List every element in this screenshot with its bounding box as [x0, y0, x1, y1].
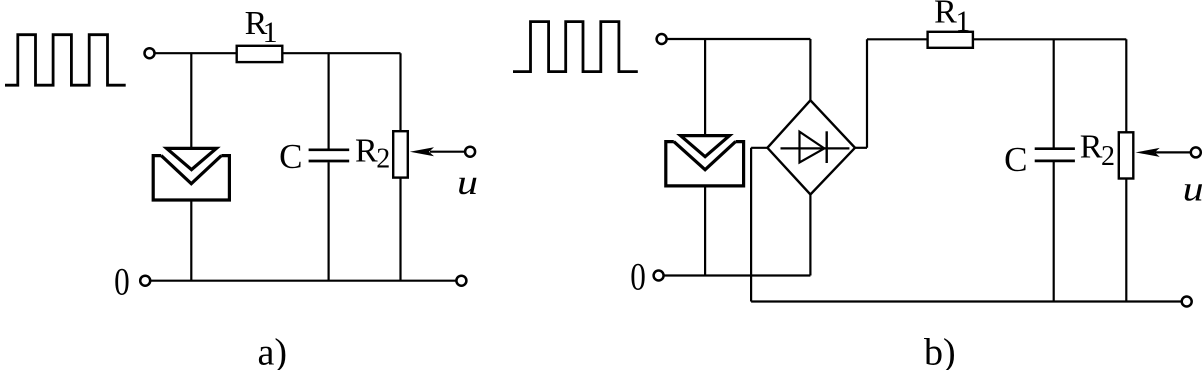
- svg-text:R: R: [355, 133, 378, 170]
- svg-text:R: R: [1080, 128, 1103, 165]
- svg-text:2: 2: [1101, 141, 1115, 172]
- svg-text:C: C: [279, 137, 302, 176]
- svg-text:1: 1: [955, 5, 970, 38]
- svg-text:u: u: [1183, 170, 1203, 208]
- svg-text:C: C: [1004, 140, 1027, 179]
- svg-text:0: 0: [114, 260, 130, 303]
- svg-text:b): b): [924, 332, 956, 370]
- svg-text:1: 1: [263, 16, 278, 49]
- svg-text:R: R: [934, 0, 957, 31]
- svg-text:u: u: [457, 164, 478, 202]
- svg-text:a): a): [258, 332, 288, 370]
- svg-text:2: 2: [376, 144, 390, 175]
- svg-text:0: 0: [630, 255, 646, 298]
